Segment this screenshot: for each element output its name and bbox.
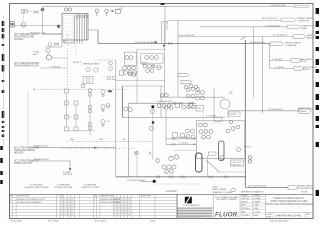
pennant at vessel C bbox=[208, 152, 217, 177]
svg-text:24-TW-460-230: 24-TW-460-230 bbox=[250, 42, 265, 44]
svg-text:PKG UNIT: PKG UNIT bbox=[232, 164, 242, 166]
svg-text:8466-PID-460-02-460: 8466-PID-460-02-460 bbox=[270, 220, 288, 222]
offpage line y60.5 bbox=[270, 59, 292, 61]
approvals text bbox=[241, 194, 261, 217]
mid cluster bubbles a bbox=[141, 54, 163, 64]
inlet line y150.5 bbox=[174, 150, 196, 152]
wire: vertical from top header to main run bbox=[164, 6, 166, 43]
left text block B bbox=[14, 62, 40, 68]
pump label bbox=[33, 52, 40, 57]
svg-text:R JONES: R JONES bbox=[253, 198, 261, 200]
inlet line to box B y138.8 bbox=[166, 137, 196, 140]
strainer bubbles x204 bbox=[196, 91, 205, 100]
vessel internals bbox=[75, 14, 87, 44]
rev table header text bbox=[10, 195, 152, 198]
overhead line y26.5 bbox=[200, 26, 287, 28]
approvals rows bbox=[240, 194, 265, 218]
svg-text:NONE: NONE bbox=[266, 217, 272, 219]
svg-text:DESCRIPTION: DESCRIPTION bbox=[101, 196, 114, 198]
bubbles at CH header top bbox=[164, 106, 173, 110]
dotted standpipe x67.5 bbox=[67, 34, 69, 90]
gauge column x103 bbox=[101, 89, 105, 127]
note text bbox=[73, 62, 82, 64]
signal dashes bbox=[23, 14, 25, 23]
microfilm text below border bbox=[11, 219, 288, 222]
vertical x214 bbox=[213, 88, 215, 117]
company name bbox=[215, 196, 239, 201]
svg-text:CONTRACT: CONTRACT bbox=[241, 214, 250, 217]
bubble right of vessel C bbox=[220, 156, 224, 160]
bubble left of standpipe bbox=[106, 104, 110, 108]
svg-text:DRAIN: DRAIN bbox=[301, 27, 308, 30]
svg-text:24-TW-460-236: 24-TW-460-236 bbox=[268, 109, 283, 111]
svg-text:PSV: PSV bbox=[197, 108, 202, 110]
vertical drop x262.5 bbox=[262, 37, 264, 114]
svg-text:PUMP DISCHARGE: PUMP DISCHARGE bbox=[14, 149, 35, 152]
svg-text:FIRST STAGE: FIRST STAGE bbox=[212, 188, 227, 191]
bubbles above box B bbox=[182, 105, 196, 109]
vertical drop x269.5 bbox=[269, 44, 271, 69]
svg-text:24-TW-460-233: 24-TW-460-233 bbox=[262, 18, 277, 20]
main header run y43.5 bbox=[98, 43, 270, 45]
valves on y176.8 bbox=[157, 176, 228, 178]
tee ball x150 bbox=[151, 105, 154, 108]
svg-text:CHEMICAL FEED: CHEMICAL FEED bbox=[82, 62, 100, 65]
pennant y19.5 bbox=[262, 17, 313, 22]
title block dividers bbox=[177, 194, 265, 218]
pump P-460 bbox=[46, 55, 67, 60]
overhead line y20.5 bbox=[167, 21, 281, 24]
svg-text:NOTE 2: NOTE 2 bbox=[244, 147, 252, 149]
junction marks on header bbox=[155, 41, 172, 46]
pennant y187.5 bbox=[288, 185, 314, 191]
equipment label box bbox=[231, 160, 244, 166]
stub x228 bbox=[227, 111, 229, 118]
pennant y68.5 bbox=[294, 66, 318, 71]
discharge line y110.8 bbox=[228, 109, 299, 111]
valve cluster under vessel bbox=[45, 40, 66, 55]
left edge fold marks bbox=[2, 21, 4, 184]
svg-text:APPROVED: APPROVED bbox=[141, 195, 152, 198]
box B right bubbles bbox=[226, 120, 240, 133]
svg-text:DRAWN: DRAWN bbox=[241, 194, 248, 197]
bottom-left text block D bbox=[14, 160, 40, 166]
svg-text:24-TW-460-234: 24-TW-460-234 bbox=[266, 25, 281, 27]
svg-text:NO 2 TREATED WATER: NO 2 TREATED WATER bbox=[14, 62, 40, 65]
small instrument boxes left of box B bbox=[173, 133, 185, 138]
svg-text:A/B: A/B bbox=[33, 53, 37, 56]
svg-text:PUMP SUCTION: PUMP SUCTION bbox=[14, 163, 32, 165]
elbow riser x116 bbox=[97, 60, 116, 177]
bottom band separator line bbox=[10, 193, 314, 195]
svg-text:FILTERS: FILTERS bbox=[14, 39, 24, 41]
valve row on y99 bbox=[173, 102, 193, 105]
mid cluster bubbles d bbox=[146, 69, 154, 73]
mid cluster bubbles b bbox=[143, 64, 155, 68]
drain line y68 bbox=[40, 66, 68, 68]
wire: vertical x178 bbox=[177, 21, 179, 98]
pennant y60.5 bbox=[291, 58, 313, 63]
sample coolers bbox=[22, 10, 28, 14]
svg-text:ISSUED FOR DESIGN: ISSUED FOR DESIGN bbox=[101, 199, 121, 201]
svg-text:CHECKED: CHECKED bbox=[241, 198, 250, 200]
sp pennants right of skid bbox=[178, 74, 192, 84]
svg-text:SCALE: SCALE bbox=[266, 213, 272, 216]
revision table columns half A bbox=[13, 194, 80, 218]
ladder verticals bbox=[67, 93, 77, 127]
package unit box B bbox=[196, 121, 245, 159]
level switch boxes col1 bbox=[65, 89, 69, 131]
ladder cross dashes bbox=[69, 116, 75, 118]
outlet elbow to right bbox=[246, 184, 288, 187]
inlet line to box B y144.3 bbox=[166, 143, 196, 146]
bottom main run y176.8 bbox=[116, 176, 246, 178]
bubble on leg 2 bbox=[149, 126, 153, 130]
title block frame bbox=[177, 194, 313, 218]
spares header group3 bbox=[81, 183, 99, 189]
svg-text:REVISED PER COMMENTS: REVISED PER COMMENTS bbox=[17, 202, 42, 204]
svg-text:24-TW-460-230-AG: 24-TW-460-230-AG bbox=[135, 41, 154, 44]
riser x42 bbox=[41, 6, 44, 34]
small circle x136 bbox=[135, 151, 139, 155]
svg-text:2: 2 bbox=[94, 202, 95, 204]
svg-text:TO USERS: TO USERS bbox=[297, 111, 307, 113]
svg-text:1: 1 bbox=[10, 199, 11, 201]
note text right bbox=[244, 147, 252, 149]
tee ball bottom bbox=[153, 180, 156, 183]
svg-text:24-TW-460-231: 24-TW-460-231 bbox=[273, 35, 288, 37]
svg-text:24-TW-460-238: 24-TW-460-238 bbox=[271, 5, 286, 7]
svg-text:8466-PID-460-02-460: 8466-PID-460-02-460 bbox=[276, 214, 302, 218]
bottom-left text block C bbox=[14, 147, 40, 155]
svg-text:SUPPLY: SUPPLY bbox=[300, 61, 308, 63]
revision table frame bbox=[10, 194, 178, 218]
note above title block bbox=[241, 191, 308, 194]
svg-text:24-TW-460-236-AG: 24-TW-460-236-AG bbox=[248, 184, 267, 187]
offpage line y68.5 bbox=[270, 67, 295, 69]
svg-text:AUTO CADD: AUTO CADD bbox=[95, 219, 107, 222]
line label y43.5 a bbox=[135, 41, 154, 44]
hatch marks half B bbox=[114, 198, 131, 215]
pipe line top header bbox=[43, 5, 295, 7]
header H2 bbox=[128, 102, 196, 104]
svg-text:PUMP MINIMUM FLOW: PUMP MINIMUM FLOW bbox=[14, 66, 40, 68]
vessel label bbox=[63, 41, 75, 44]
svg-text:TREATED WATER: TREATED WATER bbox=[297, 107, 313, 110]
title bottom row line bbox=[265, 213, 313, 219]
svg-text:2"-CH-460: 2"-CH-460 bbox=[178, 143, 189, 145]
signal drop x28 bbox=[27, 91, 29, 148]
flow arrow on top border bbox=[161, 3, 165, 5]
svg-text:FIRST STAGE TREATED COLUMN: FIRST STAGE TREATED COLUMN bbox=[271, 200, 308, 203]
svg-text:SUPPLY: SUPPLY bbox=[303, 69, 311, 71]
svg-text:CAUSTIC SYSTEM: CAUSTIC SYSTEM bbox=[81, 186, 99, 189]
column label L-460 bbox=[212, 187, 233, 194]
line label y99 bbox=[157, 101, 172, 103]
svg-text:NOTES: NOTES bbox=[301, 192, 308, 194]
svg-text:WATER: WATER bbox=[307, 37, 314, 40]
svg-text:NOTE 4: NOTE 4 bbox=[230, 114, 238, 116]
small box bbox=[82, 85, 85, 88]
feed text block bbox=[14, 33, 39, 41]
eq box on y117 line bbox=[214, 117, 222, 122]
svg-text:PROJ ENG: PROJ ENG bbox=[241, 208, 250, 210]
skid bubbles row1 bbox=[123, 56, 137, 75]
fine print paragraph bbox=[178, 208, 213, 218]
revision table columns half B bbox=[93, 194, 155, 218]
riser x98 bbox=[88, 30, 98, 44]
M-440 ref bbox=[166, 189, 177, 193]
svg-text:T WEBB: T WEBB bbox=[253, 201, 260, 203]
vertical drop x244.5 bbox=[241, 37, 246, 188]
chem bubbles bbox=[86, 67, 98, 72]
box B bubbles row0 bbox=[199, 123, 208, 127]
right edge fold marks bbox=[316, 8, 319, 196]
CH header vertical x166 bbox=[165, 110, 167, 144]
svg-text:10-14-94: 10-14-94 bbox=[253, 211, 260, 213]
aux line y184 bbox=[155, 183, 200, 185]
bubble on leg 1 bbox=[151, 110, 155, 114]
svg-text:2"-TW-460: 2"-TW-460 bbox=[50, 66, 61, 68]
bubbles in mid box bbox=[145, 56, 159, 60]
svg-text:D LEE: D LEE bbox=[253, 204, 259, 206]
svg-text:28-TW-460-202: 28-TW-460-202 bbox=[34, 145, 49, 147]
suction line y161 bbox=[29, 159, 70, 161]
top-left corner elbow note bbox=[118, 6, 122, 11]
svg-text:4"-TW-460: 4"-TW-460 bbox=[274, 67, 285, 69]
bubbles under y99 bbox=[157, 94, 171, 108]
chem pump box bbox=[83, 77, 93, 84]
spares header group1 bbox=[24, 183, 49, 189]
svg-text:ISSUED FOR CONSTRUCTION: ISSUED FOR CONSTRUCTION bbox=[17, 199, 45, 201]
left edge guide line bbox=[3, 15, 5, 150]
ladder bottom line bbox=[67, 130, 96, 132]
dashed signal row y141.5 bbox=[66, 141, 152, 143]
riser x137 bbox=[137, 49, 165, 177]
surge column in box B bbox=[219, 141, 225, 161]
svg-text:24-TW-460-232: 24-TW-460-232 bbox=[179, 35, 195, 37]
filter F-460 inlet box bbox=[11, 22, 15, 28]
chemical skid box bbox=[116, 81, 165, 87]
riser x161 bbox=[160, 86, 162, 117]
chem area label bbox=[82, 62, 100, 65]
svg-text:M-440: M-440 bbox=[150, 220, 155, 222]
logo caption bbox=[183, 204, 201, 207]
vessel C bbox=[196, 153, 203, 172]
svg-text:LAH: LAH bbox=[70, 138, 74, 141]
svg-text:M RAY: M RAY bbox=[253, 207, 259, 210]
skid lower box bbox=[119, 71, 123, 76]
scale and dwg no bbox=[266, 213, 311, 219]
svg-text:0: 0 bbox=[10, 202, 11, 204]
svg-text:TO HIALEAH: TO HIALEAH bbox=[285, 44, 297, 47]
skid left bubbles bbox=[107, 61, 116, 80]
off-page pennant top bbox=[271, 5, 310, 8]
drop label bbox=[63, 172, 73, 176]
svg-text:TO DISTRIBUTION: TO DISTRIBUTION bbox=[297, 188, 314, 190]
svg-text:LG: LG bbox=[107, 91, 110, 93]
lower header line y99 bbox=[160, 96, 225, 98]
rev row1 text bbox=[10, 199, 45, 201]
bubbles above y99 bbox=[186, 87, 200, 98]
bubbles inside vessel box bbox=[76, 15, 88, 18]
tag labels col x103 bbox=[107, 91, 110, 123]
svg-text:AUTO CADD: AUTO CADD bbox=[11, 219, 23, 222]
column top verticals bbox=[162, 22, 168, 98]
labels on dashed row bbox=[70, 138, 126, 141]
right column bubbles bbox=[237, 148, 252, 164]
svg-text:PIPING AND INSTRUMENTATION DIA: PIPING AND INSTRUMENTATION DIAGRAM bbox=[266, 203, 313, 206]
bubbles left of box B bbox=[186, 129, 195, 139]
valve V1 bbox=[35, 11, 39, 14]
riser x127.5 bbox=[127, 103, 129, 177]
svg-text:J SMITH: J SMITH bbox=[253, 195, 260, 197]
hatch marks half A bbox=[61, 198, 75, 215]
dotted row y148.5 bbox=[62, 148, 135, 150]
svg-text:ISSUED FOR REVIEW: ISSUED FOR REVIEW bbox=[101, 202, 121, 204]
small boxes near y99 bbox=[175, 104, 193, 108]
svg-text:HEADER: HEADER bbox=[14, 152, 24, 155]
bubble cluster left of vessel C bbox=[156, 155, 179, 174]
eductor diagonal bbox=[206, 160, 220, 173]
pipe line y25.5 bbox=[15, 25, 63, 28]
dotted standpipe x76 bbox=[75, 44, 77, 59]
branch line y36.5 bbox=[178, 34, 316, 39]
small box x200 bbox=[196, 105, 203, 111]
svg-text:6"-TW-460: 6"-TW-460 bbox=[206, 116, 216, 118]
spares header group2 bbox=[54, 183, 73, 189]
svg-text:SUCTION: SUCTION bbox=[63, 174, 73, 176]
svg-text:APPR: APPR bbox=[241, 203, 246, 206]
instrument bubble PI bbox=[21, 23, 26, 28]
skid lower bubbles bbox=[128, 72, 136, 76]
svg-text:16-TW-460-234: 16-TW-460-234 bbox=[157, 101, 172, 103]
feed pipe y34 bbox=[42, 33, 62, 35]
standpipe x122.3 bbox=[121, 86, 123, 117]
label box right of controller bbox=[229, 112, 241, 117]
signal dashes x203 bbox=[202, 112, 204, 121]
branch y181.5 bbox=[140, 181, 153, 183]
svg-text:BROTHERS COMPANY: BROTHERS COMPANY bbox=[216, 198, 237, 201]
aux line y172 bbox=[216, 171, 245, 173]
drain bubble near bottom bbox=[232, 188, 236, 192]
feed line label bbox=[30, 32, 46, 34]
offpage box y110.8 bbox=[297, 107, 313, 113]
svg-text:LG: LG bbox=[107, 121, 110, 123]
bubbles under H2 corner bbox=[124, 107, 132, 112]
pennant y26.5 bbox=[266, 25, 316, 30]
rev row2 text bbox=[10, 202, 42, 204]
drop leg x150 bbox=[152, 108, 154, 160]
Fluor Daniel logo bbox=[185, 197, 192, 204]
dark mark x150 bbox=[152, 121, 154, 124]
svg-text:POLYMER SYSTEM: POLYMER SYSTEM bbox=[54, 187, 73, 189]
ladder dashed signal y91 bbox=[33, 89, 127, 91]
svg-text:3: 3 bbox=[94, 199, 95, 201]
svg-text:DESCRIPTION: DESCRIPTION bbox=[17, 196, 30, 198]
svg-text:DESIGN: DESIGN bbox=[241, 201, 248, 203]
inline vessel x214 bbox=[220, 91, 233, 110]
FLUOR wordmark bbox=[215, 212, 239, 219]
level switch boxes col2 bbox=[74, 101, 78, 131]
skid inner rect bbox=[124, 52, 136, 65]
clearwell vessel TK-460 bbox=[62, 14, 88, 41]
box B bubbles row2 bbox=[202, 135, 211, 139]
box B bubbles row1 bbox=[199, 130, 213, 134]
svg-text:CHEMICAL FEED SYSTEM: CHEMICAL FEED SYSTEM bbox=[24, 186, 49, 189]
dark mark under skid bbox=[108, 90, 112, 92]
revision table rows bbox=[10, 198, 178, 216]
svg-text:28-TW-460-203: 28-TW-460-203 bbox=[34, 159, 49, 161]
controller bubble bbox=[157, 65, 161, 69]
svg-text:TREATED WATER: TREATED WATER bbox=[297, 185, 313, 188]
line label under y176.8 bbox=[127, 179, 146, 182]
gauge column x90 bbox=[88, 88, 92, 135]
pennant y43.5 bbox=[250, 42, 301, 47]
drawing title bbox=[266, 197, 313, 206]
vertical drop x253 bbox=[252, 27, 254, 98]
svg-text:6"-TW-460: 6"-TW-460 bbox=[272, 59, 283, 61]
line y117.5 bbox=[122, 116, 225, 118]
rev half B rows text bbox=[94, 199, 121, 204]
svg-text:FLUOR DANIEL INC: FLUOR DANIEL INC bbox=[183, 204, 201, 207]
svg-text:AUTO CADD: AUTO CADD bbox=[48, 219, 60, 222]
svg-text:REFERENCE DRAWINGS: REFERENCE DRAWINGS bbox=[241, 191, 264, 194]
svg-text:NOTE 3: NOTE 3 bbox=[73, 62, 82, 64]
mid cluster pennant bbox=[142, 62, 147, 64]
supply line y147.6 bbox=[29, 145, 116, 148]
svg-text:846620: 846620 bbox=[253, 215, 259, 217]
svg-text:TREATED COLUMN: TREATED COLUMN bbox=[212, 191, 233, 194]
svg-text:1: 1 bbox=[309, 217, 310, 219]
wire symbols to valve bbox=[28, 11, 35, 13]
svg-text:LSH: LSH bbox=[99, 139, 103, 141]
x marks near x150 bbox=[135, 152, 152, 155]
svg-text:FLUOR.: FLUOR. bbox=[215, 212, 239, 219]
instrument row top bbox=[64, 8, 120, 16]
svg-text:2"-CH-460: 2"-CH-460 bbox=[178, 137, 189, 139]
drop arrow x70 bbox=[69, 161, 71, 171]
top cluster above box B bbox=[184, 84, 198, 89]
svg-text:HIALEAH FLORIDA FACILITY: HIALEAH FLORIDA FACILITY bbox=[274, 197, 305, 200]
dotted row y123.5 bbox=[196, 123, 222, 125]
svg-text:● M-440: ● M-440 bbox=[166, 189, 177, 193]
svg-text:TO ATM VENT: TO ATM VENT bbox=[297, 20, 310, 23]
